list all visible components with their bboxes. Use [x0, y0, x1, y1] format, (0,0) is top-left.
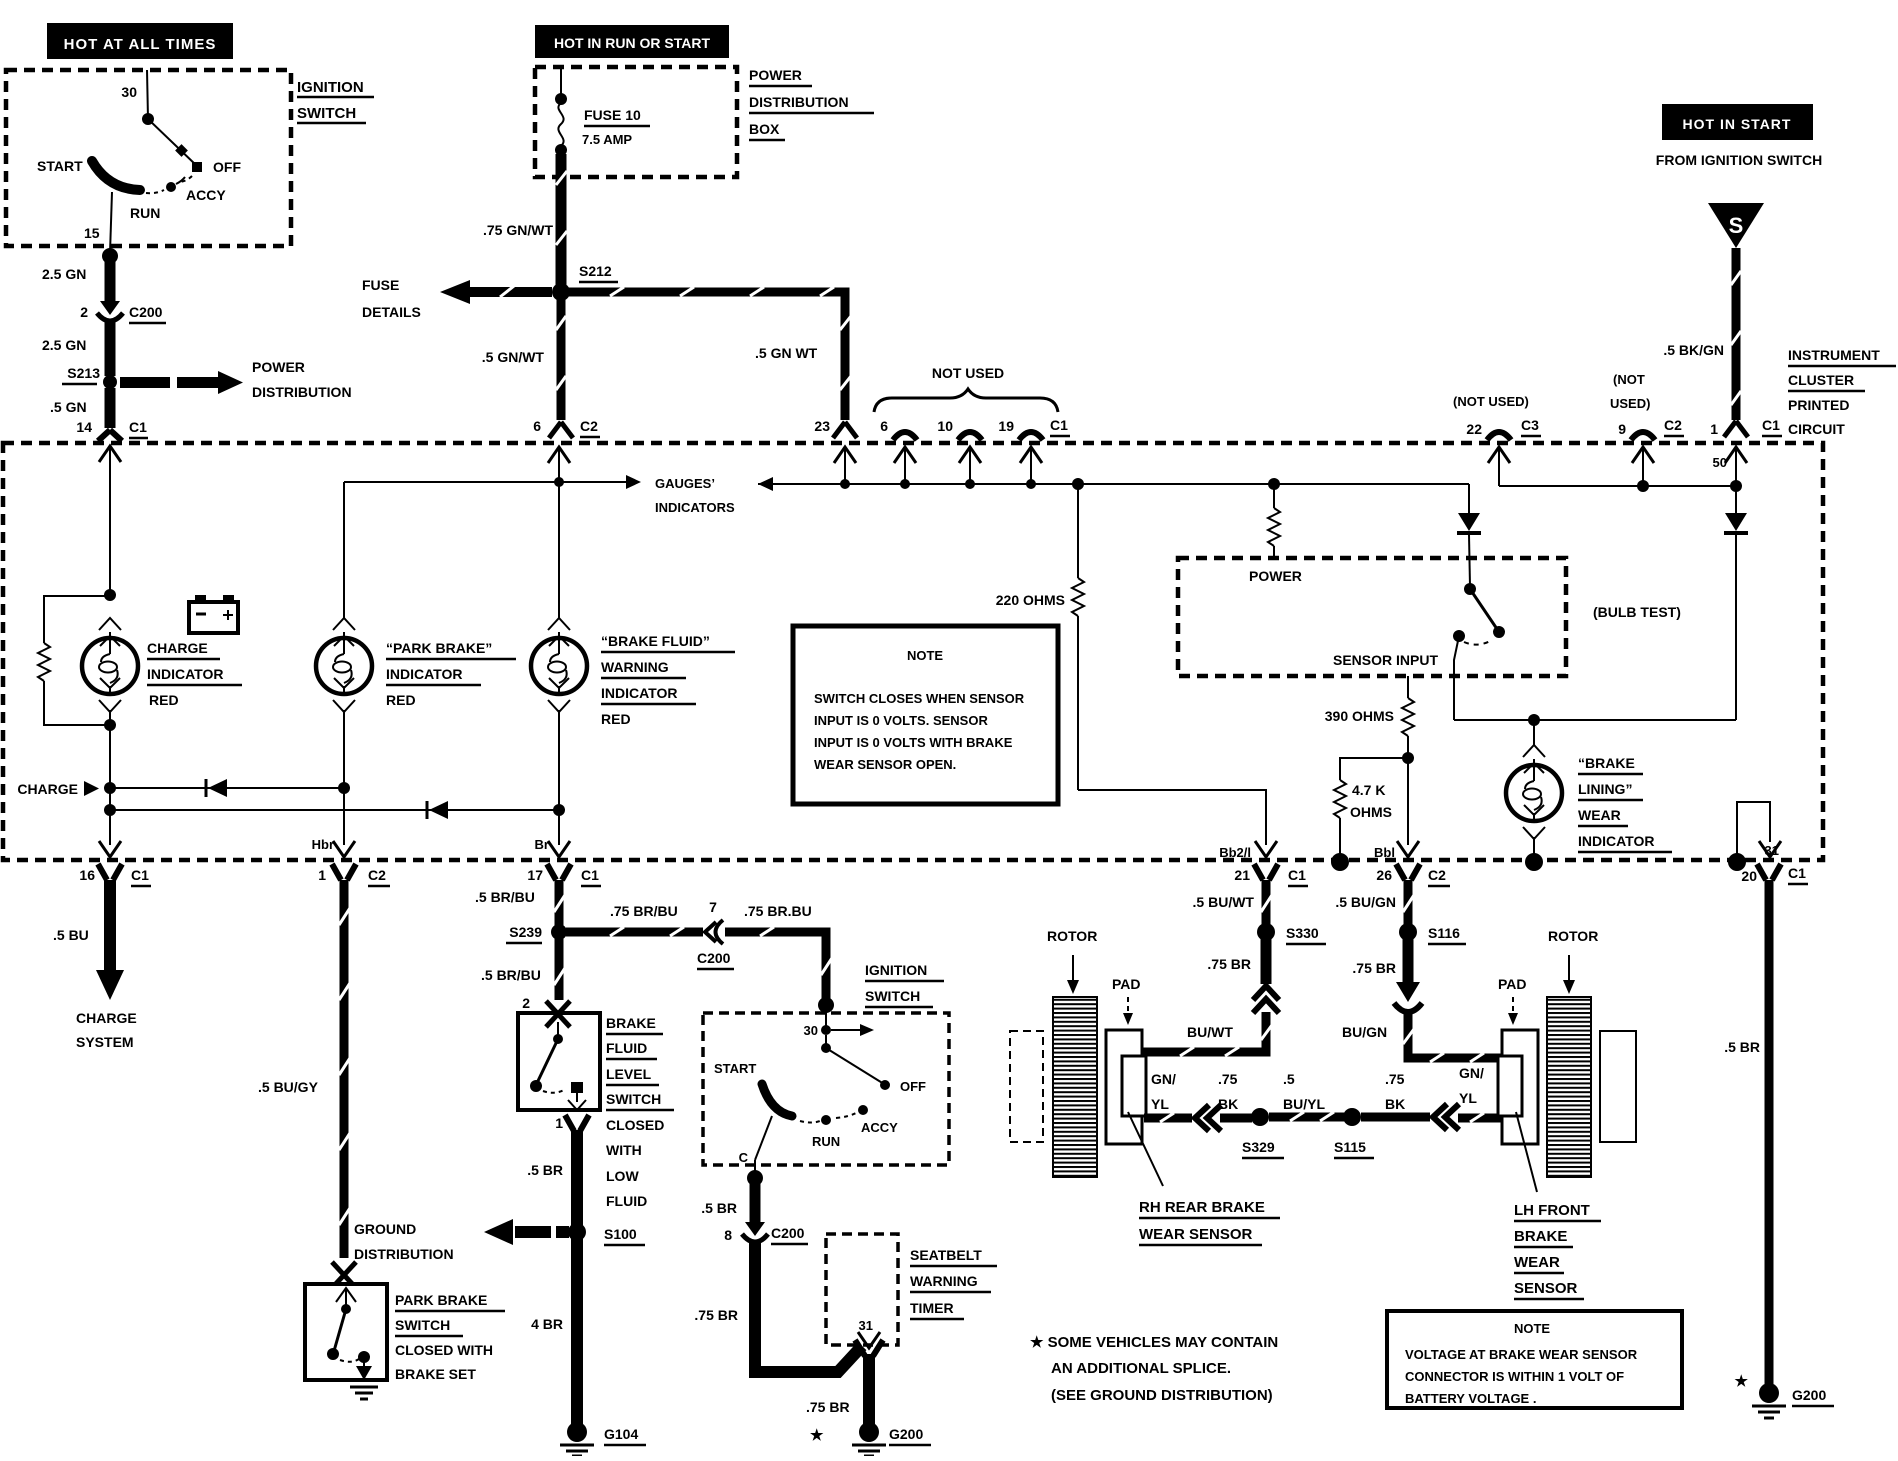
wire .75 BK to S329: [1218, 1071, 1252, 1118]
ignition switch (top) ACCY contact: [166, 177, 226, 203]
svg-text:BU/WT: BU/WT: [1187, 1024, 1233, 1040]
connector pin 1 C1 female: [1710, 417, 1782, 437]
wire .5 BU/GY park brake feed: [258, 880, 350, 1258]
svg-text:S100: S100: [604, 1226, 637, 1242]
svg-text:.75: .75: [1218, 1071, 1238, 1087]
svg-text:SWITCH: SWITCH: [865, 988, 920, 1004]
svg-text:C3: C3: [1521, 417, 1539, 433]
svg-text:.5 GN/WT: .5 GN/WT: [482, 349, 545, 365]
svg-text:LINING”: LINING”: [1578, 781, 1632, 797]
connector pin 31 seatbelt timer: [855, 1318, 883, 1356]
POWER dashed box (sensor module): [1178, 558, 1566, 676]
lamp PARK BRAKE INDICATOR: [316, 482, 372, 788]
wire 2.5 GN lower: [42, 322, 110, 376]
wire .5 BU/GN pin 26 to S116: [1335, 880, 1414, 925]
svg-text:S239: S239: [509, 924, 542, 940]
connector pin 1 male arrow, terminal 50: [1713, 447, 1747, 486]
ignition switch (top) terminal 15 wire: [84, 192, 112, 253]
svg-text:★: ★: [1735, 1373, 1749, 1390]
connector pin 22 C3: [1466, 417, 1541, 486]
svg-text:ROTOR: ROTOR: [1548, 928, 1598, 944]
svg-text:.5 GN: .5 GN: [50, 399, 87, 415]
svg-text:.75 BR: .75 BR: [806, 1399, 850, 1415]
svg-text:HOT IN START: HOT IN START: [1683, 116, 1792, 132]
connector pin 2 brake fluid level switch: [522, 995, 570, 1027]
svg-text:31: 31: [859, 1318, 873, 1333]
svg-text:ROTOR: ROTOR: [1047, 928, 1097, 944]
svg-text:RUN: RUN: [812, 1134, 840, 1149]
svg-text:INDICATOR: INDICATOR: [147, 666, 223, 682]
svg-text:“PARK BRAKE”: “PARK BRAKE”: [386, 640, 492, 656]
wire 2.5 GN upper: [42, 256, 110, 301]
svg-text:2.5 GN: 2.5 GN: [42, 337, 86, 353]
note box (switch closes): [793, 626, 1058, 804]
connector C200 pin 8: [724, 1222, 808, 1244]
svg-text:.5 BR/BU: .5 BR/BU: [475, 889, 535, 905]
connector C200 pin 7: [697, 899, 734, 969]
svg-text:Bb2/l: Bb2/l: [1219, 845, 1251, 860]
svg-text:INDICATOR: INDICATOR: [601, 685, 677, 701]
svg-text:CHARGE: CHARGE: [147, 640, 208, 656]
header HOT IN RUN OR START: [535, 25, 729, 58]
svg-text:.75 BR.BU: .75 BR.BU: [744, 903, 812, 919]
svg-text:.75 BR: .75 BR: [1207, 956, 1251, 972]
inline connector (LH bottom, double chevron left): [1433, 1104, 1459, 1130]
wire .5 GN: [50, 388, 110, 421]
wire park brake lamp to pin 1 C2: [312, 788, 344, 852]
svg-text:.5 BR: .5 BR: [527, 1162, 563, 1178]
ignition switch (top) START wiper arc: [37, 158, 140, 190]
svg-text:C1: C1: [1762, 417, 1780, 433]
svg-text:PARK BRAKE: PARK BRAKE: [395, 1292, 487, 1308]
svg-text:OFF: OFF: [213, 159, 241, 175]
wire .5 GN WT S212 to pin 23: [568, 287, 851, 420]
label GROUND DISTRIBUTION: [354, 1221, 454, 1262]
connector pin 16 C1: [79, 841, 151, 886]
diode charge to park brake: [110, 779, 350, 797]
svg-text:30: 30: [121, 84, 137, 100]
connector pin 1 C2: [318, 841, 390, 886]
svg-text:22: 22: [1466, 421, 1482, 437]
ignition switch (bottom) arm to OFF: [826, 1048, 926, 1094]
svg-text:PRINTED: PRINTED: [1788, 397, 1849, 413]
seatbelt warning timer dashed box: [826, 1234, 898, 1345]
inline connector (RH bottom, double chevron left): [1195, 1105, 1221, 1131]
wire .5 GN/WT down to pin 6 C2: [482, 297, 566, 420]
wire .5 BU to charge system: [53, 880, 124, 1000]
svg-text:POWER: POWER: [749, 67, 802, 83]
bulb test switch: [1453, 583, 1505, 720]
label PAD (LH): [1498, 976, 1527, 1025]
label RH REAR BRAKE WEAR SENSOR: [1139, 1199, 1280, 1245]
wire BU/WT to RH sensor: [1140, 1012, 1272, 1056]
svg-text:LH FRONT: LH FRONT: [1514, 1202, 1590, 1219]
park brake switch internals: [327, 1288, 372, 1380]
svg-text:LEVEL: LEVEL: [606, 1066, 652, 1082]
splice S212: [552, 263, 618, 301]
svg-text:POWER: POWER: [252, 359, 305, 375]
svg-text:1: 1: [1710, 421, 1718, 437]
svg-text:23: 23: [814, 418, 830, 434]
svg-text:.75: .75: [1385, 1071, 1405, 1087]
svg-text:.5 BR: .5 BR: [1724, 1039, 1760, 1055]
svg-text:C200: C200: [129, 304, 163, 320]
header HOT AT ALL TIMES: [47, 23, 233, 59]
svg-text:C1: C1: [1788, 865, 1806, 881]
ignition switch (bottom) ACCY RUN contacts: [800, 1105, 898, 1149]
svg-text:HOT IN RUN OR START: HOT IN RUN OR START: [554, 35, 711, 51]
svg-text:2: 2: [80, 304, 88, 320]
svg-text:7.5 AMP: 7.5 AMP: [582, 132, 632, 147]
svg-text:C1: C1: [129, 419, 147, 435]
svg-text:INDICATOR: INDICATOR: [1578, 833, 1654, 849]
svg-text:IGNITION: IGNITION: [865, 962, 927, 978]
svg-text:C1: C1: [1050, 417, 1068, 433]
svg-text:CLOSED: CLOSED: [606, 1117, 664, 1133]
RH pad with wear sensor: [1106, 1030, 1146, 1144]
svg-text:.75 BR: .75 BR: [1352, 960, 1396, 976]
svg-text:POWER: POWER: [1249, 568, 1302, 584]
svg-text:DISTRIBUTION: DISTRIBUTION: [749, 94, 849, 110]
svg-text:START: START: [714, 1061, 756, 1076]
svg-text:RED: RED: [149, 692, 179, 708]
label BRAKE FLUID LEVEL SWITCH CLOSED WITH LOW FLUID: [606, 1015, 674, 1209]
label CHARGE with arrow: [17, 781, 116, 797]
wire BU/GN to LH sensor: [1342, 1014, 1504, 1062]
ground G200 (center): [852, 1422, 931, 1456]
wire .75 BR.BU C200 to ignition switch: [725, 903, 834, 1013]
svg-text:ACCY: ACCY: [861, 1120, 898, 1135]
svg-text:FUSE: FUSE: [362, 277, 399, 293]
diagonal pointer LH sensor: [1516, 1112, 1537, 1192]
svg-text:15: 15: [84, 225, 100, 241]
svg-text:BK: BK: [1218, 1096, 1238, 1112]
connector pin 21 C1: [1234, 841, 1308, 886]
svg-text:HOT AT ALL TIMES: HOT AT ALL TIMES: [64, 36, 217, 53]
svg-text:17: 17: [527, 867, 543, 883]
splice S213: [62, 365, 117, 389]
svg-text:30: 30: [804, 1023, 818, 1038]
svg-text:C2: C2: [580, 418, 598, 434]
wire sensor input to pin 26: [1374, 758, 1408, 860]
svg-text:20: 20: [1741, 868, 1757, 884]
svg-text:14: 14: [76, 419, 92, 435]
svg-text:PAD: PAD: [1498, 976, 1527, 992]
wire charge lamp to pin 16: [109, 725, 111, 845]
svg-text:2.5 GN: 2.5 GN: [42, 266, 86, 282]
svg-text:SWITCH CLOSES WHEN SENSOR: SWITCH CLOSES WHEN SENSOR: [814, 691, 1025, 706]
RH rotor (hatched): [1053, 997, 1097, 1177]
svg-text:YL: YL: [1459, 1090, 1477, 1106]
svg-text:.5 BK/GN: .5 BK/GN: [1663, 342, 1724, 358]
diode (bulb test feed): [1457, 484, 1481, 586]
gauges bus wire right segment pins 22/9/1: [1499, 480, 1742, 492]
wire GN/YL RH sensor: [1144, 1071, 1192, 1122]
svg-text:4.7 K: 4.7 K: [1352, 782, 1385, 798]
svg-text:C: C: [739, 1150, 749, 1165]
svg-text:SWITCH: SWITCH: [395, 1317, 450, 1333]
svg-text:.5 BU/WT: .5 BU/WT: [1193, 894, 1255, 910]
connector pin 19 (not used) C1: [998, 417, 1070, 484]
svg-text:19: 19: [998, 418, 1014, 434]
splice S100 with ground distribution arrow: [484, 1219, 645, 1245]
svg-text:AN ADDITIONAL SPLICE.: AN ADDITIONAL SPLICE.: [1051, 1360, 1231, 1377]
inline connector (LH top, cup): [1394, 1003, 1422, 1012]
svg-text:C200: C200: [697, 950, 731, 966]
svg-text:WARNING: WARNING: [910, 1273, 978, 1289]
connector pin 14 male arrow: [99, 446, 121, 482]
svg-text:G200: G200: [889, 1426, 923, 1442]
ignition switch (bottom) dashed box: [703, 1013, 949, 1165]
svg-text:WARNING: WARNING: [601, 659, 669, 675]
wire .75 BR/BU S239 to C200 pin 7: [566, 903, 703, 936]
svg-text:50: 50: [1713, 455, 1727, 470]
star note: [1030, 1334, 1278, 1404]
svg-text:C2: C2: [1428, 867, 1446, 883]
svg-text:SENSOR INPUT: SENSOR INPUT: [1333, 652, 1438, 668]
svg-text:.75 BR: .75 BR: [694, 1307, 738, 1323]
wire .75 BR S330 down: [1207, 938, 1266, 984]
wire .5 BR/BU S239 to switch pin 2: [481, 938, 565, 1000]
svg-text:6: 6: [880, 418, 888, 434]
svg-text:FLUID: FLUID: [606, 1040, 647, 1056]
connector pin 6 C2: [533, 418, 600, 482]
svg-text:C2: C2: [368, 867, 386, 883]
svg-text:S213: S213: [67, 365, 100, 381]
svg-text:C1: C1: [131, 867, 149, 883]
svg-text:CIRCUIT: CIRCUIT: [1788, 421, 1845, 437]
wire .5 BR level switch down: [527, 1130, 577, 1424]
svg-text:.5 BU/GY: .5 BU/GY: [258, 1079, 319, 1095]
splice S115: [1334, 1108, 1374, 1158]
svg-text:TIMER: TIMER: [910, 1300, 954, 1316]
wire .75 BR to G200: [806, 1354, 869, 1424]
svg-text:(NOT USED): (NOT USED): [1453, 394, 1529, 409]
park brake switch box: [305, 1284, 387, 1380]
svg-text:C2: C2: [1664, 417, 1682, 433]
label INSTRUMENT CLUSTER PRINTED CIRCUIT: [1788, 347, 1896, 437]
svg-text:1: 1: [318, 867, 326, 883]
svg-text:1: 1: [555, 1115, 563, 1131]
svg-text:DISTRIBUTION: DISTRIBUTION: [354, 1246, 454, 1262]
splice S329: [1242, 1108, 1284, 1158]
wire .5 BR ignition to C200 pin 8: [701, 1178, 755, 1222]
svg-text:OHMS: OHMS: [1350, 804, 1392, 820]
splice S116: [1399, 923, 1466, 944]
svg-text:BOX: BOX: [749, 121, 780, 137]
svg-text:OFF: OFF: [900, 1079, 926, 1094]
svg-text:21: 21: [1234, 867, 1250, 883]
svg-text:START: START: [37, 158, 83, 174]
inline connector (RH, double chevron): [1253, 986, 1279, 1013]
gauges bus wire left segment with arrow: [344, 475, 641, 489]
svg-text:YL: YL: [1151, 1096, 1169, 1112]
svg-text:“BRAKE FLUID”: “BRAKE FLUID”: [601, 633, 710, 649]
svg-text:S212: S212: [579, 263, 612, 279]
diagonal pointer RH sensor: [1128, 1112, 1163, 1186]
svg-text:.5 BU/GN: .5 BU/GN: [1335, 894, 1396, 910]
label IGNITION SWITCH (bottom): [865, 962, 944, 1007]
svg-text:GROUND: GROUND: [354, 1221, 416, 1237]
svg-text:CHARGE: CHARGE: [17, 781, 78, 797]
svg-text:SEATBELT: SEATBELT: [910, 1247, 982, 1263]
connector pin 10 (not used): [937, 418, 982, 484]
ground G200 (right): [1752, 1383, 1834, 1418]
svg-text:.5 GN WT: .5 GN WT: [755, 345, 818, 361]
svg-text:★ SOME VEHICLES MAY CONTAIN: ★ SOME VEHICLES MAY CONTAIN: [1030, 1334, 1278, 1351]
wire .75 BK S115 to LH connector: [1361, 1071, 1430, 1117]
arrow to FUSE DETAILS: [362, 277, 552, 320]
svg-text:LOW: LOW: [606, 1168, 639, 1184]
svg-text:INPUT IS 0 VOLTS WITH BRAKE: INPUT IS 0 VOLTS WITH BRAKE: [814, 735, 1013, 750]
svg-text:CONNECTOR IS WITHIN 1 VOLT OF: CONNECTOR IS WITHIN 1 VOLT OF: [1405, 1369, 1624, 1384]
svg-text:RED: RED: [601, 711, 631, 727]
wire 220ohm branch to pin 21: [1078, 790, 1266, 845]
gauges bus wire main segment: [758, 477, 1469, 491]
svg-text:FLUID: FLUID: [606, 1193, 647, 1209]
label (NOT USED) over pin 9: [1610, 372, 1650, 411]
label LH FRONT BRAKE WEAR SENSOR: [1514, 1202, 1601, 1299]
resistor to POWER box: [1268, 484, 1280, 558]
power distribution box (dashed): [535, 67, 737, 177]
resistor 390 OHMS: [1325, 676, 1414, 764]
label IGNITION SWITCH (top): [297, 79, 374, 123]
svg-text:WEAR: WEAR: [1578, 807, 1621, 823]
svg-text:WEAR: WEAR: [1514, 1254, 1560, 1271]
svg-text:10: 10: [937, 418, 953, 434]
label PARK BRAKE SWITCH CLOSED WITH BRAKE SET: [395, 1292, 505, 1382]
ignition switch (bottom) START wiper: [714, 1061, 792, 1116]
connector into park brake switch: [332, 1262, 356, 1288]
wire .5 BR/BU pin 17 to S239: [475, 880, 565, 926]
svg-text:S115: S115: [1334, 1139, 1366, 1155]
lamp BRAKE FLUID WARNING INDICATOR: [531, 482, 587, 810]
svg-text:.5 BU: .5 BU: [53, 927, 89, 943]
connector pin 17 C1: [527, 841, 601, 886]
label BRAKE LINING WEAR INDICATOR: [1578, 755, 1672, 852]
svg-text:26: 26: [1376, 867, 1392, 883]
header HOT IN START: [1662, 104, 1813, 140]
connector pin 31 male arrow: [1759, 841, 1781, 857]
wire .5 BK/GN: [1663, 248, 1741, 420]
svg-text:(SEE GROUND DISTRIBUTION): (SEE GROUND DISTRIBUTION): [1051, 1387, 1273, 1404]
label PARK BRAKE INDICATOR RED: [386, 640, 516, 708]
wire .75 BR C200 to seatbelt timer: [694, 1242, 862, 1372]
ignition switch (top) OFF contact: [180, 159, 241, 182]
label SEATBELT WARNING TIMER: [910, 1247, 997, 1319]
label CHARGE INDICATOR RED: [147, 640, 242, 708]
svg-text:.5 BR/BU: .5 BR/BU: [481, 967, 541, 983]
svg-text:INDICATOR: INDICATOR: [386, 666, 462, 682]
svg-text:Bbl: Bbl: [1374, 845, 1395, 860]
svg-text:WITH: WITH: [606, 1142, 642, 1158]
svg-text:NOTE: NOTE: [907, 648, 943, 663]
svg-text:INPUT IS 0 VOLTS. SENSOR: INPUT IS 0 VOLTS. SENSOR: [814, 713, 988, 728]
ground symbol park brake switch: [350, 1387, 378, 1399]
connector pin 26 C2: [1376, 841, 1450, 886]
svg-text:BRAKE SET: BRAKE SET: [395, 1366, 476, 1382]
svg-text:SWITCH: SWITCH: [606, 1091, 661, 1107]
svg-text:FROM IGNITION SWITCH: FROM IGNITION SWITCH: [1656, 152, 1822, 168]
svg-text:DISTRIBUTION: DISTRIBUTION: [252, 384, 352, 400]
shunt resistor beside charge lamp: [38, 596, 110, 725]
svg-text:CHARGE: CHARGE: [76, 1010, 137, 1026]
connector pin 9 C2: [1618, 417, 1684, 486]
label CHARGE SYSTEM: [76, 1010, 137, 1050]
label PAD (RH): [1112, 976, 1141, 1025]
charge indicator branch wire: [104, 482, 116, 601]
LH rotor (hatched): [1547, 997, 1591, 1177]
diode charge to brake fluid: [104, 801, 565, 819]
RH caliper outline: [1010, 1031, 1043, 1142]
label ROTOR (RH): [1047, 928, 1097, 994]
svg-text:16: 16: [79, 867, 95, 883]
resistor 220 OHMS: [996, 484, 1084, 790]
svg-text:FUSE 10: FUSE 10: [584, 107, 641, 123]
brake fluid level switch internals: [530, 1022, 586, 1110]
svg-text:9: 9: [1618, 421, 1626, 437]
svg-text:S116: S116: [1428, 925, 1460, 941]
wire pin 31 loop: [1728, 802, 1779, 871]
label BRAKE FLUID WARNING INDICATOR RED: [601, 633, 735, 727]
svg-text:7: 7: [709, 899, 717, 915]
svg-text:.75 BR/BU: .75 BR/BU: [610, 903, 678, 919]
ignition switch (top) terminal 30: [121, 70, 154, 125]
connector C200 pin 2: [80, 301, 166, 323]
splice S330: [1257, 923, 1326, 944]
arrow to POWER DISTRIBUTION: [120, 359, 352, 400]
svg-text:GN/: GN/: [1459, 1065, 1484, 1081]
connector pin 1 below level switch: [555, 1115, 589, 1131]
ground G104: [560, 1422, 646, 1456]
svg-text:BU/GN: BU/GN: [1342, 1024, 1387, 1040]
splice S239: [506, 924, 567, 943]
ignition switch (top) RUN contact and dashed arc: [130, 190, 164, 221]
svg-text:.75 GN/WT: .75 GN/WT: [483, 222, 553, 238]
LH pad with wear sensor: [1498, 1030, 1538, 1144]
svg-text:390 OHMS: 390 OHMS: [1325, 708, 1394, 724]
svg-text:“BRAKE: “BRAKE: [1578, 755, 1635, 771]
svg-text:USED): USED): [1610, 396, 1650, 411]
svg-text:6: 6: [533, 418, 541, 434]
connector pin 20 C1: [1741, 864, 1808, 884]
wire bulb-test to lamp and terminal 50: [1454, 714, 1736, 726]
svg-text:RUN: RUN: [130, 205, 160, 221]
wire .5 BU/YL S329 to S115: [1269, 1071, 1344, 1121]
label NOT USED with brace over pins 6 10 19: [874, 365, 1058, 412]
svg-text:4 BR: 4 BR: [531, 1316, 563, 1332]
lamp BRAKE LINING WEAR INDICATOR: [1506, 720, 1562, 871]
ignition switch (top) dashed box: [6, 70, 291, 246]
svg-text:C200: C200: [771, 1225, 805, 1241]
svg-text:S330: S330: [1286, 925, 1319, 941]
wire GN/YL to LH sensor: [1458, 1065, 1502, 1122]
svg-text:2: 2: [522, 995, 530, 1011]
svg-text:CLUSTER: CLUSTER: [1788, 372, 1854, 388]
svg-text:C1: C1: [581, 867, 599, 883]
svg-text:G104: G104: [604, 1426, 638, 1442]
svg-text:DETAILS: DETAILS: [362, 304, 421, 320]
fuse 10 7.5 AMP: [555, 67, 650, 156]
svg-text:RH REAR BRAKE: RH REAR BRAKE: [1139, 1199, 1265, 1216]
battery icon: [189, 595, 238, 633]
ignition switch (bottom) terminal C: [739, 1116, 772, 1186]
resistor 4.7 K OHMS: [1331, 758, 1408, 871]
svg-text:INSTRUMENT: INSTRUMENT: [1788, 347, 1880, 363]
svg-text:GAUGES’: GAUGES’: [655, 476, 715, 491]
svg-text:IGNITION: IGNITION: [297, 79, 364, 96]
svg-text:ACCY: ACCY: [186, 187, 226, 203]
